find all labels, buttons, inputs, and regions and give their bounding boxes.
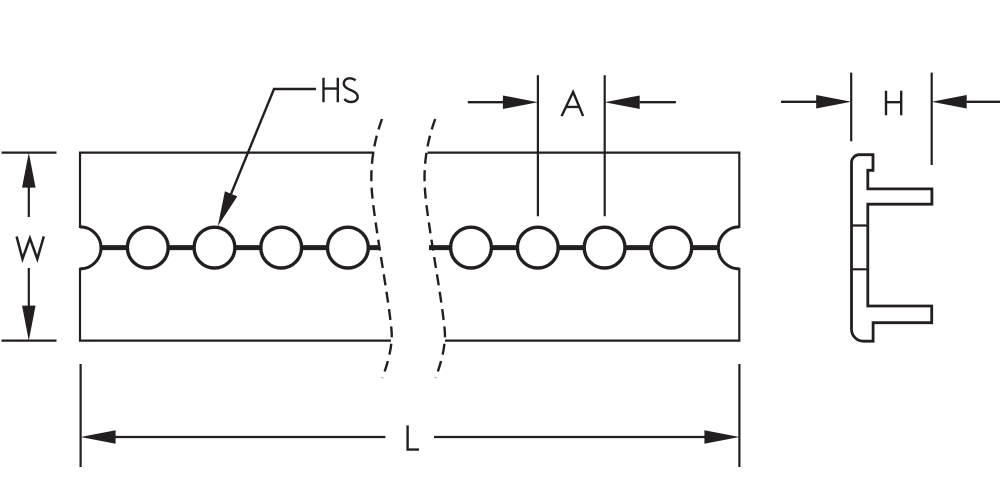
dimension L extension line left: [79, 364, 81, 467]
HS leader arrowhead: [218, 191, 238, 226]
dimension L line left segment: [115, 436, 386, 438]
profile hole section line lower: [852, 268, 868, 270]
label W: [17, 236, 44, 259]
dimension H right arrow tail: [967, 101, 1000, 103]
dimension W arrow down: [22, 306, 36, 341]
break line left (dashed S-curve): [371, 119, 391, 378]
dimension H arrow right (points left): [932, 95, 967, 109]
dimension L line right segment: [434, 436, 706, 438]
label A: [562, 92, 584, 116]
bar left section outline: [80, 153, 391, 341]
hole 4: [328, 227, 369, 268]
dimension A extension line left: [537, 75, 539, 216]
dimension A left arrow tail: [468, 101, 504, 103]
label HS letter S: [344, 78, 358, 102]
hole 1: [127, 227, 168, 268]
dimension H extension line right: [931, 73, 933, 165]
label H: [886, 91, 901, 115]
side profile outline: [852, 155, 932, 342]
dimension H extension line left: [850, 73, 852, 142]
bar right section outline: [428, 153, 740, 341]
dimension H left arrow tail: [781, 101, 817, 103]
dimension A arrow left (points right): [503, 95, 538, 109]
slot center line left section: [100, 245, 379, 250]
slot center line right section: [429, 245, 719, 250]
hole 8: [651, 227, 692, 268]
hole 3: [261, 227, 302, 268]
dimension A right arrow tail: [640, 101, 676, 103]
dimension L extension line right: [738, 364, 740, 467]
hole 6: [517, 227, 558, 268]
left end half-hole notch: [80, 227, 101, 269]
dimension A extension line right: [604, 75, 606, 216]
dimension W arrow up: [22, 153, 36, 188]
dimension H arrow left (points right): [816, 95, 851, 109]
hole 5: [451, 227, 492, 268]
label HS letter H: [324, 78, 338, 103]
break line right (dashed S-curve): [425, 119, 445, 378]
dimension W line upper segment: [28, 187, 30, 218]
dimension W line lower segment: [28, 268, 30, 307]
label L: [408, 425, 419, 449]
dimension L arrow left (points left): [81, 430, 116, 444]
profile hole section line upper: [852, 224, 868, 226]
hole 2: [194, 227, 235, 268]
hole 7: [584, 227, 625, 268]
right end half-hole notch: [718, 227, 739, 269]
HS leader line: [231, 89, 316, 194]
dimension A arrow right (points left): [605, 95, 640, 109]
dimension L arrow right (points right): [704, 430, 739, 444]
dimension W extension line bottom: [2, 340, 57, 342]
dimension W extension line top: [2, 152, 57, 154]
